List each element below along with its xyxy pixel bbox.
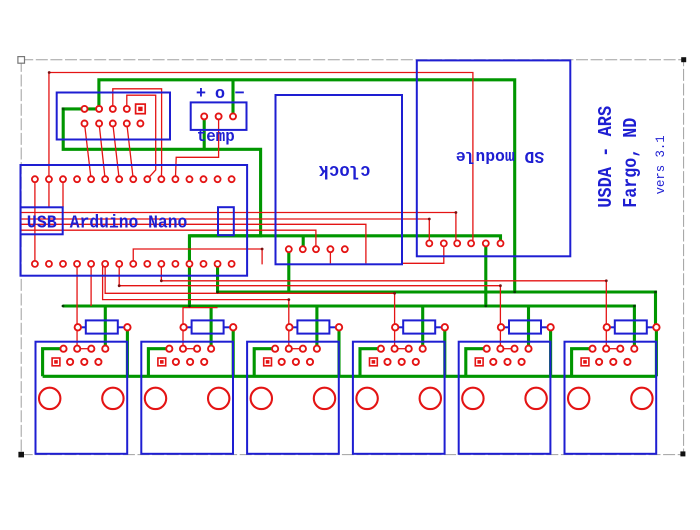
svg-text:Fargo, ND: Fargo, ND: [620, 118, 642, 208]
svg-text:+: +: [196, 85, 206, 104]
svg-text:temp: temp: [197, 127, 235, 146]
svg-text:vers 3.1: vers 3.1: [653, 135, 668, 194]
svg-text:USDA - ARS: USDA - ARS: [595, 106, 617, 208]
svg-text:SD module: SD module: [456, 146, 545, 165]
svg-text:−: −: [234, 85, 244, 104]
svg-text:clock: clock: [318, 160, 370, 180]
svg-text:USB: USB: [27, 214, 57, 234]
svg-text:Arduino Nano: Arduino Nano: [70, 214, 188, 234]
svg-text:o: o: [215, 85, 225, 104]
